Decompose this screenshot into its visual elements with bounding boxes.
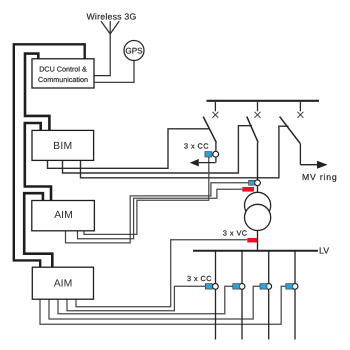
LV feeder 2 (241, 252, 243, 340)
LV feeder 4 (294, 252, 296, 340)
svg-text:3 x VC: 3 x VC (223, 228, 248, 237)
wire BIM to switch S1 (48, 129, 211, 169)
LV CT4 blue marker (286, 284, 293, 290)
switch blade cell 1 (203, 117, 216, 143)
disconnector X cell 1 (212, 112, 218, 118)
VC red marker (transformer MV side) (242, 187, 254, 192)
svg-text:DCU Control &: DCU Control & (39, 65, 87, 74)
LV CT3 blue marker (260, 284, 267, 290)
thick cable AIM1 to AIM2 (24, 193, 52, 267)
arrow right (MV ring) (317, 161, 328, 169)
transformer primary line (257, 143, 259, 250)
wire AIM1 to CT1 (MV cell 1) (84, 156, 209, 234)
LV feeder 3 (268, 252, 270, 340)
svg-text:AIM: AIM (54, 279, 72, 290)
MV cell 3 drop (299, 102, 301, 112)
wire AIM1 to VC (transformer MV side) (78, 189, 243, 239)
feeder line cell 1 (199, 143, 216, 163)
GPS feed line (94, 61, 134, 83)
antenna Wireless 3G (94, 21, 119, 76)
AIM1 box (32, 201, 95, 231)
AIM2 box (32, 267, 93, 299)
wire BIM to switch S3 (81, 126, 289, 178)
LV CT3 circle (266, 284, 272, 290)
svg-text:3 x CC: 3 x CC (187, 274, 212, 283)
LV feeder 1 (215, 252, 217, 340)
svg-text:3 x CC: 3 x CC (184, 142, 209, 151)
wire AIM2 to LV CT3 (49, 286, 260, 319)
svg-text:MV ring: MV ring (302, 172, 338, 182)
svg-text:LV: LV (319, 246, 329, 256)
thick cable DCU to AIM2 (outer bus) (14, 44, 85, 267)
LV busbar (193, 250, 318, 252)
LV CT2 circle (239, 284, 245, 290)
LV CT1 blue marker (205, 284, 212, 290)
MV cell 2 drop (257, 102, 259, 112)
wire AIM1 to CT2 (MV cell 2) (66, 183, 249, 243)
MV busbar (207, 100, 320, 102)
switch blade cell 2 (247, 117, 258, 143)
CT circle cell 2 (255, 180, 261, 186)
wire AIM2 to LV CT2 (58, 286, 233, 314)
MV ring line (300, 144, 317, 165)
VC red marker (LV bus) (247, 238, 257, 243)
LV CT1 circle (213, 284, 219, 290)
disconnector X cell 2 (255, 112, 261, 118)
thick cable DCU to BIM (25, 54, 49, 131)
svg-text:GPS: GPS (125, 47, 143, 56)
svg-text:BIM: BIM (53, 141, 72, 152)
thick cable BIM to AIM1 (25, 123, 51, 201)
disconnector X cell 3 (297, 112, 303, 118)
MV cell 1 drop (214, 102, 216, 112)
DCU Control & Communication box (32, 59, 94, 88)
BIM box (32, 130, 94, 160)
LV CT4 circle (292, 284, 298, 290)
arrow left (outgoing MV cable) (190, 159, 199, 167)
CT circle cell 1 (213, 151, 219, 157)
CT blue marker cell 1 (205, 152, 212, 157)
transformer circles (245, 192, 271, 230)
wire AIM2 to LV CT4 (40, 286, 286, 324)
switch blade cell 3 (280, 117, 301, 144)
wire AIM2 to LV CT1 (67, 286, 205, 310)
LV CT2 blue marker (233, 284, 240, 290)
GPS circle (124, 41, 144, 61)
svg-text:Wireless 3G: Wireless 3G (86, 11, 136, 21)
wire AIM2 to VC (LV bus) (76, 240, 247, 307)
CT blue marker cell 2 (249, 180, 255, 185)
svg-text:AIM: AIM (54, 210, 72, 221)
svg-text:Communication: Communication (38, 75, 88, 84)
wire BIM to switch S2 (63, 126, 252, 173)
